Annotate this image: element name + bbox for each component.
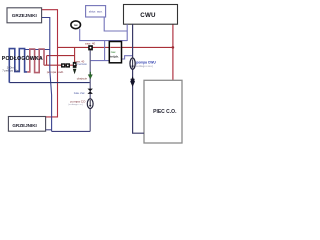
wire red CWU right drop to boiler top xyxy=(172,24,174,80)
box expansion tank zbior wyr xyxy=(86,6,106,17)
check valve on pompa CO line xyxy=(88,89,93,94)
wire red supply from radiators top xyxy=(42,10,58,65)
box GRZEJNIKI top xyxy=(7,8,42,23)
svg-text:(w obiegu c.o.): (w obiegu c.o.) xyxy=(68,104,83,106)
green flow arrow obejscie xyxy=(88,72,92,79)
svg-text:pompa CO: pompa CO xyxy=(70,99,86,103)
svg-text:GRZEJNIKI: GRZEJNIKI xyxy=(12,13,37,18)
svg-text:CWU: CWU xyxy=(140,12,156,19)
wire blue branch to floor coils xyxy=(24,49,49,51)
wire slate bypass vertical E pompa CO line xyxy=(89,50,91,131)
wire red floor-loop feed upper xyxy=(47,55,75,57)
valve on main supply zaw 40 xyxy=(88,45,93,50)
check valve on pompa CWU line xyxy=(130,76,135,87)
box CWU tank xyxy=(124,5,178,25)
svg-text:zaw.: zaw. xyxy=(111,51,117,54)
wire red drop to bottom radiators xyxy=(46,65,58,117)
box boiler PIEC C.O. xyxy=(144,80,182,143)
valve pair on lower manifold xyxy=(61,63,70,67)
wire purple branch G down to valve feed xyxy=(104,41,106,61)
wire navy bottom return horizontal D xyxy=(52,130,91,132)
wire purple F to three way valve xyxy=(90,60,109,62)
wire red bypass vertical K xyxy=(74,47,76,62)
wire blue stub bottom radiators xyxy=(46,129,52,131)
wire purple gauge drop and cross line xyxy=(80,29,128,41)
box three way valve zaw trojdr xyxy=(109,42,121,63)
svg-text:trójdr.: trójdr. xyxy=(110,55,119,59)
svg-text:GRZEJNIKI: GRZEJNIKI xyxy=(12,123,37,128)
wire dark slate pompa CWU line to boiler xyxy=(133,24,144,133)
svg-text:PIEC C.O.: PIEC C.O. xyxy=(153,109,177,115)
wire red coil elbow xyxy=(46,56,48,66)
wire purple CWU bottom left riser xyxy=(126,24,128,41)
svg-text:(w obiegu c.w.u.): (w obiegu c.w.u.) xyxy=(135,65,153,68)
svg-text:pompa podł.: pompa podł. xyxy=(47,70,64,74)
svg-text:zbior. wyr.: zbior. wyr. xyxy=(89,10,103,14)
svg-text:zaw. zwr.: zaw. zwr. xyxy=(74,91,86,95)
wire red main supply horizontal to boiler xyxy=(58,46,173,48)
wire red lower manifold line xyxy=(44,64,77,66)
coil blue floor heating serpentine xyxy=(9,49,27,83)
box GRZEJNIKI bottom xyxy=(8,117,45,132)
svg-text:zaw. 40: zaw. 40 xyxy=(85,42,96,46)
pump pompa CO xyxy=(87,99,93,109)
wire navy collector horizontal B xyxy=(9,82,90,84)
wire blue return from top radiators long vertical xyxy=(42,18,52,132)
wire purple valve jog to pump line xyxy=(122,56,133,59)
svg-text:PODŁOGÓWKA: PODŁOGÓWKA xyxy=(2,54,43,62)
wire purple expansion tank drop xyxy=(104,17,127,31)
vessel ellipse gauge xyxy=(71,21,81,29)
pump pompa CWU xyxy=(130,58,135,69)
node red junction at main line and boiler drop xyxy=(172,46,175,49)
svg-text:pompa CWU: pompa CWU xyxy=(136,60,156,64)
svg-text:z termost.: z termost. xyxy=(77,63,88,66)
valve on bypass K with down arrow xyxy=(73,62,77,74)
svg-text:obejscie: obejscie xyxy=(77,76,88,80)
svg-text:7 petli po 20m: 7 petli po 20m xyxy=(2,68,20,72)
coil red floor heating serpentine xyxy=(27,49,44,73)
